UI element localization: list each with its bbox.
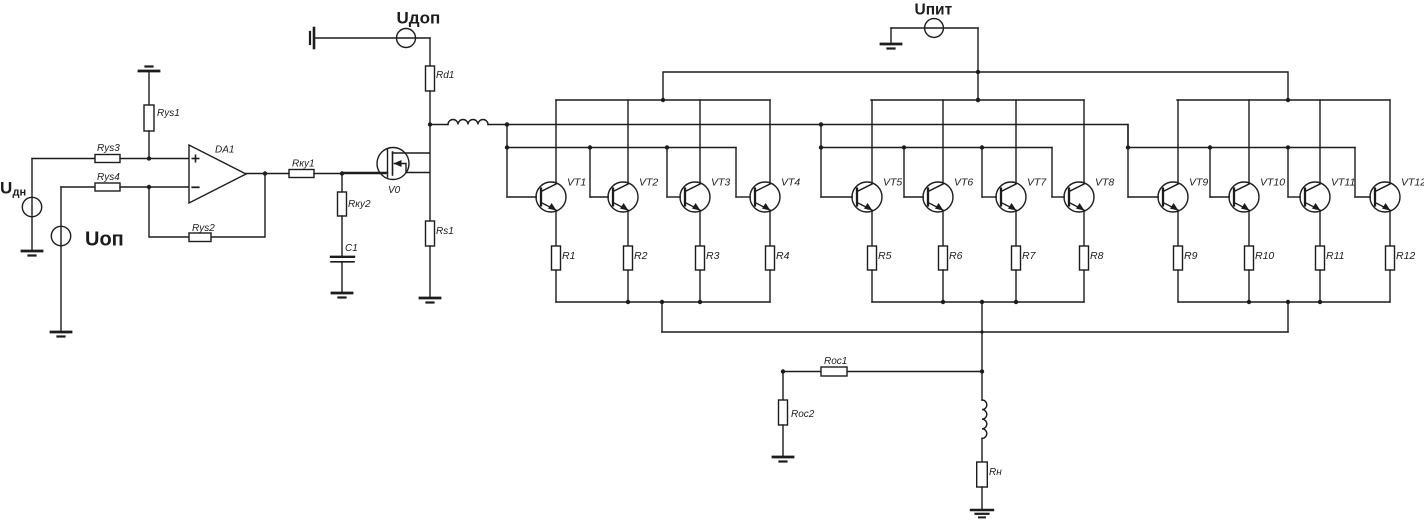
- svg-text:VT1: VT1: [567, 177, 586, 189]
- svg-text:R2: R2: [634, 250, 648, 262]
- svg-text:Uпит: Uпит: [915, 1, 953, 18]
- svg-text:Rys4: Rys4: [97, 172, 120, 183]
- svg-text:VT11: VT11: [1331, 177, 1355, 189]
- svg-text:U: U: [0, 179, 12, 198]
- svg-text:VT12: VT12: [1401, 177, 1424, 189]
- svg-text:C1: C1: [345, 243, 358, 254]
- svg-text:Rs1: Rs1: [436, 226, 454, 237]
- svg-text:дн: дн: [13, 187, 27, 199]
- svg-text:VT3: VT3: [711, 177, 730, 189]
- svg-text:R6: R6: [949, 250, 963, 262]
- svg-text:VT10: VT10: [1260, 177, 1285, 189]
- svg-text:Rd1: Rd1: [436, 70, 454, 81]
- svg-text:Rкy1: Rкy1: [292, 159, 315, 170]
- svg-text:R10: R10: [1255, 250, 1274, 262]
- svg-text:R5: R5: [878, 250, 892, 262]
- svg-text:VT6: VT6: [954, 177, 973, 189]
- svg-text:R12: R12: [1396, 250, 1415, 262]
- svg-text:Rн: Rн: [989, 467, 1002, 478]
- svg-text:VT4: VT4: [781, 177, 800, 189]
- svg-text:R11: R11: [1326, 250, 1344, 262]
- svg-text:Uоп: Uоп: [85, 229, 124, 251]
- svg-text:VT8: VT8: [1095, 177, 1114, 189]
- svg-text:Roc1: Roc1: [824, 356, 847, 367]
- svg-text:VT7: VT7: [1027, 177, 1047, 189]
- svg-text:R7: R7: [1022, 250, 1037, 262]
- svg-text:Uдоп: Uдоп: [397, 9, 441, 28]
- svg-text:R3: R3: [706, 250, 720, 262]
- svg-text:Rys2: Rys2: [192, 223, 215, 234]
- svg-text:R8: R8: [1090, 250, 1104, 262]
- svg-text:Roc2: Roc2: [791, 409, 815, 420]
- svg-text:R4: R4: [776, 250, 790, 262]
- svg-text:V0: V0: [388, 185, 401, 196]
- svg-text:Rys1: Rys1: [157, 108, 180, 119]
- svg-text:Rys3: Rys3: [97, 143, 120, 154]
- svg-text:VT5: VT5: [883, 177, 902, 189]
- svg-text:VT2: VT2: [639, 177, 658, 189]
- svg-text:VT9: VT9: [1189, 177, 1208, 189]
- svg-text:Rкy2: Rкy2: [348, 199, 371, 210]
- svg-text:DA1: DA1: [215, 144, 234, 155]
- svg-text:R1: R1: [562, 250, 575, 262]
- svg-text:R9: R9: [1184, 250, 1198, 262]
